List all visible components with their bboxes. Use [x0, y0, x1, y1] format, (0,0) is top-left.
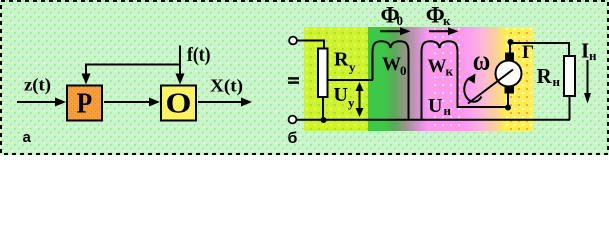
svg-text:O: O — [166, 86, 192, 118]
resistor Rn — [564, 56, 575, 96]
flux arrow Fk — [429, 27, 459, 35]
flux arrow F0 — [380, 27, 411, 35]
junction dot — [321, 117, 327, 123]
svg-text:а: а — [23, 129, 32, 146]
magenta band — [428, 27, 464, 131]
corner dot — [508, 39, 514, 45]
wire resistor bottom to bottom rail — [322, 97, 324, 120]
svg-text:у: у — [348, 95, 355, 110]
resistor Ry — [318, 49, 328, 98]
svg-text:P: P — [77, 87, 93, 119]
wire output arrow from O — [198, 98, 252, 107]
svg-text:X(t): X(t) — [210, 76, 243, 97]
svg-text:R: R — [537, 64, 553, 88]
svg-text:б: б — [288, 130, 298, 147]
junction dot under generator — [505, 105, 511, 111]
svg-text:U: U — [334, 84, 348, 106]
block P — [67, 86, 102, 121]
shaft line — [468, 70, 513, 104]
bottom rail wire — [297, 119, 571, 121]
winding W0 — [373, 41, 409, 119]
svg-text:I: I — [581, 39, 589, 63]
svg-text:н: н — [553, 74, 561, 89]
rotation arrow omega — [464, 78, 481, 102]
generator G circle — [496, 61, 522, 87]
voltage arrow Uy — [356, 82, 364, 117]
wire input arrow to P — [17, 98, 66, 107]
wire feedback horizontal — [85, 64, 181, 66]
wire f(t) vertical into O — [176, 46, 185, 85]
wire P to O arrow — [104, 98, 160, 107]
wire Rn bottom to rail — [569, 96, 571, 120]
magenta-to-yellow gradient band — [464, 27, 506, 131]
svg-text:R: R — [334, 49, 349, 71]
svg-text:к: к — [446, 64, 454, 79]
wire branch down into P — [82, 64, 91, 85]
chartreuse band — [304, 27, 368, 131]
svg-text:к: к — [443, 13, 451, 28]
wire generator top to Rn — [510, 43, 569, 56]
svg-text:W: W — [382, 54, 401, 75]
svg-text:Γ: Γ — [522, 42, 534, 63]
svg-text:f(t): f(t) — [187, 44, 211, 66]
svg-text:U: U — [428, 95, 442, 117]
bottom brush — [505, 87, 515, 94]
current arrow In — [584, 60, 591, 104]
source = sign — [288, 77, 299, 84]
block O — [161, 86, 196, 121]
winding Wk — [422, 41, 508, 119]
svg-text:0: 0 — [400, 63, 407, 78]
yellow band — [506, 27, 534, 131]
svg-text:z(t): z(t) — [24, 75, 51, 96]
wire top from terminal to resistor — [297, 41, 324, 49]
terminal bottom — [289, 116, 297, 124]
svg-text:н: н — [444, 103, 452, 118]
svg-text:0: 0 — [397, 13, 404, 28]
svg-text:W: W — [428, 56, 447, 77]
wire tap to W0 — [328, 79, 374, 81]
green-to-magenta gradient band — [384, 27, 428, 131]
svg-text:н: н — [589, 48, 597, 63]
green band — [368, 27, 384, 131]
page background texture — [0, 0, 609, 155]
svg-text:у: у — [349, 60, 356, 75]
wire dot up to bottom brush — [507, 92, 509, 108]
dashed page border — [1, 1, 608, 154]
svg-text:ω: ω — [473, 45, 491, 77]
top brush — [505, 53, 514, 61]
terminal top — [289, 37, 297, 45]
